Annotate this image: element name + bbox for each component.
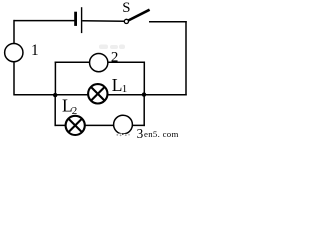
- svg-text:1: 1: [122, 83, 128, 95]
- meter 1: [5, 43, 23, 61]
- wire right vertical: [185, 21, 187, 95]
- wire upper-loop right vertical: [143, 62, 145, 95]
- lamp L1: [88, 84, 107, 103]
- battery: [74, 7, 81, 33]
- wire upper-loop left vertical: [54, 62, 56, 95]
- junction node right: [142, 92, 146, 96]
- wire top-left: [14, 20, 75, 22]
- wire lower-loop right vertical: [143, 95, 145, 126]
- junction node left: [53, 93, 57, 97]
- faint watermark smudge: [99, 45, 125, 50]
- watermark fragment over meter 3: [116, 134, 130, 137]
- wire upper-loop top: [55, 61, 145, 63]
- svg-text:S: S: [122, 0, 130, 16]
- lamp L2: [66, 116, 85, 135]
- switch S: [124, 10, 149, 24]
- wire lower-loop left vertical: [54, 95, 56, 126]
- wire battery to switch: [82, 20, 124, 23]
- meter 2: [90, 53, 108, 71]
- meter 3: [114, 115, 133, 134]
- svg-text:en5. com: en5. com: [144, 129, 179, 138]
- wire switch to top-right corner: [149, 21, 187, 23]
- wire left vertical bottom: [13, 62, 15, 95]
- wire left vertical top: [13, 20, 15, 43]
- svg-text:2: 2: [111, 50, 119, 66]
- svg-text:2: 2: [72, 105, 78, 117]
- wire main middle: [14, 94, 187, 96]
- svg-text:L: L: [112, 75, 123, 95]
- wire lower-loop bottom: [55, 124, 145, 126]
- svg-text:3: 3: [137, 126, 144, 138]
- svg-text:1: 1: [31, 42, 39, 59]
